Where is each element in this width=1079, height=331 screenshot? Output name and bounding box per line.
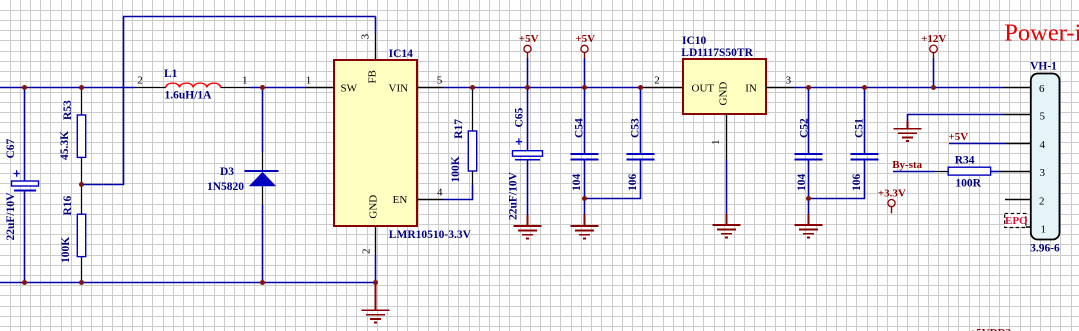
wire EN pin stub [417,199,444,201]
wire connector pin2 stub [1005,199,1031,201]
wire OUT pin stub of IC10 [641,87,684,89]
svg-text:EPO: EPO [1005,215,1028,227]
ground C65 [514,215,542,238]
junction +5V C54 [582,85,587,90]
resistor R34 [948,167,990,175]
ground pin5 earth [894,121,922,141]
svg-text:C67: C67 [5,138,17,158]
svg-text:+5VDD2: +5VDD2 [970,327,1012,331]
svg-text:1: 1 [242,75,248,87]
diode D3 [262,88,264,153]
svg-text:2: 2 [360,249,372,255]
junction +12V pin6 [931,85,936,90]
wire connector pin4 net [949,143,1006,145]
svg-text:L1: L1 [164,68,178,80]
svg-text:Power-in: Power-in [1004,20,1079,47]
svg-text:1: 1 [1041,224,1047,236]
wire IN pin stub [766,87,794,89]
svg-text:3.96-6: 3.96-6 [1030,243,1060,255]
ground IC10 [713,214,741,237]
junction C52 bottom [806,196,811,201]
wire SW pin stub [305,87,334,89]
wire L1 left lead [135,87,166,89]
svg-text:1: 1 [710,140,722,146]
junction C54 bottom [582,196,587,201]
svg-text:22uF/10V: 22uF/10V [508,171,520,220]
svg-text:2: 2 [654,75,660,87]
svg-text:2: 2 [137,75,143,87]
svg-text:5: 5 [1040,111,1046,123]
wire FB pin vertical [375,17,377,34]
svg-text:LMR10510-3.3V: LMR10510-3.3V [389,229,472,241]
inductor L1 [166,83,221,87]
wire FB feedback loop [82,17,376,185]
wire IC14 GND pin [375,226,377,255]
svg-text:EN: EN [393,194,408,206]
svg-text:104: 104 [796,174,808,192]
svg-text:1.6uH/1A: 1.6uH/1A [165,90,213,102]
svg-text:45.3K: 45.3K [59,131,71,160]
capacitor C54 [584,88,586,155]
svg-text:3: 3 [1040,167,1046,179]
svg-text:4: 4 [437,187,443,199]
svg-text:VH-1: VH-1 [1030,60,1057,72]
node EPO label box [1005,214,1026,228]
svg-text:5: 5 [437,75,443,87]
connector VH-1 [1030,60,1060,254]
junction C52 top [806,85,811,90]
svg-text:4: 4 [1040,139,1046,151]
svg-text:C54: C54 [574,118,586,138]
wire C52-C51 bottom link [809,160,865,199]
svg-text:22uF/10V: 22uF/10V [5,192,17,241]
svg-text:+12V: +12V [921,33,946,45]
svg-text:+5V: +5V [575,33,595,45]
svg-text:100K: 100K [450,156,462,182]
svg-text:C65: C65 [514,107,526,127]
junction D3 bottom [260,280,265,285]
resistor R53 [81,88,83,116]
svg-text:R34: R34 [955,155,975,167]
wire input net left [0,87,135,89]
svg-text:IN: IN [745,82,757,94]
capacitor C67 [12,181,39,186]
junction C53 OUT [638,85,643,90]
svg-text:1: 1 [306,75,312,87]
wire EN net to R17 [444,185,473,200]
ground C54 [584,199,586,215]
wire IN net to connector pin 6 [794,87,1003,89]
wire pin3 net right [991,171,999,173]
svg-text:+5V: +5V [949,131,969,143]
svg-text:1N5820: 1N5820 [207,181,244,193]
wire VIN net [444,87,641,89]
svg-text:C53: C53 [630,118,642,138]
wire bottom ground net [0,282,376,284]
resistor R16 [81,185,83,215]
svg-text:6: 6 [1039,83,1045,95]
capacitor C51 [851,154,879,160]
svg-text:D3: D3 [220,166,234,178]
junction R53 top [79,85,84,90]
wire C67 branch bottom [24,191,26,283]
svg-text:100R: 100R [955,178,981,190]
junction R16 bottom [79,280,84,285]
svg-text:R53: R53 [62,100,74,120]
wire C54-C53 bottom link [585,160,641,199]
svg-text:OUT: OUT [692,83,715,95]
svg-text:C52: C52 [799,118,811,138]
svg-text:GND: GND [718,82,730,106]
svg-text:3: 3 [786,75,792,87]
junction D3 top [260,85,265,90]
svg-text:FB: FB [367,70,379,83]
svg-text:LD1117S50TR: LD1117S50TR [681,47,753,59]
svg-text:100K: 100K [60,237,72,263]
junction C67 top [22,85,27,90]
svg-text:IC14: IC14 [389,48,414,60]
capacitor C53 [627,154,655,160]
junction R17 top [470,85,475,90]
wire L1 right lead [221,87,250,89]
svg-text:VIN: VIN [389,82,409,94]
junction C67 bottom [22,280,27,285]
svg-text:R16: R16 [62,195,74,215]
svg-text:+5V: +5V [519,33,539,45]
capacitor C52 [808,88,810,155]
svg-text:2: 2 [1039,196,1045,208]
junction C51 top [862,85,867,90]
svg-text:+3.3V: +3.3V [878,187,906,199]
svg-text:106: 106 [627,174,639,192]
junction +5V C65 [525,85,530,90]
wire L1 to SW [250,87,305,89]
svg-text:GND: GND [368,195,380,219]
wire VIN pin stub [417,87,444,89]
wire pin3 net left [893,171,935,173]
svg-text:SW: SW [341,82,358,94]
op-amp IC10 LD1117 [654,35,791,145]
ground C52 [808,199,810,215]
svg-text:R17: R17 [453,119,465,139]
resistor R17 [472,88,474,132]
ground IC14 pin2 [362,283,390,323]
wire C67 branch top [24,88,26,182]
wire IC10 GND pin [726,114,728,160]
svg-text:C51: C51 [854,118,866,138]
wire connector pin1 stub [1005,226,1031,228]
junction IC14 GND [373,280,378,285]
wire connector pin5 net [908,115,1004,122]
capacitor C65 [527,88,529,152]
svg-text:104: 104 [571,174,583,192]
junction feedback divider [79,182,84,187]
svg-text:3: 3 [359,33,371,39]
op-amp IC14 LMR10510 [306,33,472,254]
svg-text:By-sta: By-sta [892,159,922,171]
svg-text:106: 106 [851,174,863,192]
svg-text:IC10: IC10 [682,35,707,47]
